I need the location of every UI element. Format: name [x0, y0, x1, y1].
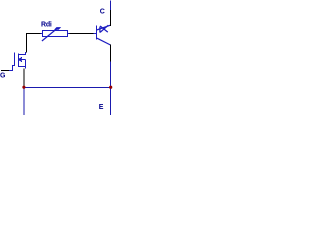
left terminal stub [41, 33, 43, 35]
wire: C rail black segment [110, 10, 112, 26]
wire: resistor to base black [70, 33, 95, 35]
wire: gate wire black [1, 70, 10, 72]
channel bar [18, 54, 20, 68]
collector arrow edge upper [100, 26, 108, 32]
collector lead diagonal [97, 25, 110, 30]
body-source connector [25, 60, 27, 67]
gate bar [14, 53, 16, 67]
wire: left bottom rail blue [23, 87, 25, 115]
wire: E rail black segment [110, 45, 112, 62]
svg-text:E: E [99, 104, 104, 111]
base stub [94, 33, 97, 35]
wire: bottom emitter bus blue [23, 87, 111, 89]
wire: source down to junction black [23, 69, 25, 87]
wire: drain to resistor black [27, 34, 43, 53]
base bar [96, 26, 98, 40]
wire: gate jog up [9, 66, 15, 71]
drain lead [19, 52, 26, 55]
wire: E rail blue lower [110, 62, 112, 116]
collector arrow base bar [99, 27, 101, 33]
emitter lead diagonal [97, 38, 111, 45]
svg-text:G: G [0, 72, 6, 79]
transistor Q2 (PNP) [94, 25, 111, 45]
transistor Q1 (MOSFET) [9, 52, 26, 71]
collector arrow edge lower [100, 25, 108, 32]
svg-text:C: C [100, 9, 105, 16]
source lead [19, 67, 26, 69]
junction dot right [109, 86, 112, 89]
wiper diagonal [42, 29, 57, 41]
right terminal stub [68, 33, 70, 35]
resistor body box [43, 31, 68, 37]
body lead with arrow [19, 59, 26, 61]
resistor Rdi (adjustable) [41, 27, 70, 41]
svg-text:Rdi: Rdi [41, 22, 52, 29]
wiper arrow flag [54, 27, 61, 30]
wire: C rail top blue [110, 1, 112, 11]
junction dot left [22, 86, 25, 89]
